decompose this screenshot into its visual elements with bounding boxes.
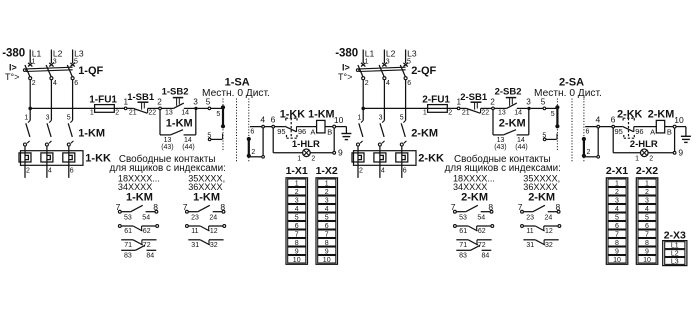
svg-text:6: 6 [615, 223, 619, 230]
node 10 (1) [333, 115, 344, 128]
svg-text:3: 3 [53, 58, 57, 65]
svg-text:6: 6 [403, 167, 407, 174]
svg-text:6: 6 [611, 114, 616, 124]
svg-text:10: 10 [334, 115, 344, 125]
svg-text:10: 10 [293, 257, 301, 264]
svg-text:2: 2 [325, 189, 329, 196]
svg-text:8: 8 [645, 240, 649, 247]
index 35XXXX (2) [523, 173, 560, 183]
SA lower contact row (2) [542, 132, 557, 140]
svg-text:1-KM: 1-KM [308, 109, 334, 121]
free contacts note line2 (1) [110, 163, 226, 174]
phase wire L3 (1) [73, 48, 84, 63]
svg-text:2-KK: 2-KK [617, 109, 642, 121]
svg-text:2: 2 [311, 156, 315, 163]
free contact group 2 1-KM [183, 191, 226, 249]
wire node10 to ground (2) [676, 126, 686, 128]
SA terminal 5 (1) [208, 107, 222, 110]
terminal block 1-X2 [316, 165, 338, 264]
contactor coil 1-KM [308, 109, 334, 137]
svg-text:95: 95 [615, 127, 623, 136]
svg-text:22: 22 [148, 110, 156, 117]
svg-text:L3: L3 [407, 48, 417, 58]
svg-text:L2: L2 [53, 48, 63, 58]
svg-text:2-X3: 2-X3 [664, 229, 686, 241]
wire control bus (1) [30, 107, 124, 109]
svg-text:1: 1 [635, 155, 639, 162]
index 34XXXX (1) [118, 182, 152, 192]
SA node 4 (1) [262, 125, 265, 128]
node 9 (1) [333, 147, 343, 157]
svg-text:(44): (44) [182, 144, 194, 151]
svg-text:-380: -380 [2, 48, 25, 60]
svg-text:4: 4 [645, 206, 649, 213]
SA movable bridge 2 (2) [582, 137, 591, 158]
phase wire L2 (1) [51, 48, 62, 63]
svg-text:2-FU1: 2-FU1 [422, 95, 450, 106]
svg-text:4: 4 [381, 167, 385, 174]
svg-text:6: 6 [250, 129, 254, 136]
SA terminal 5 (2) [543, 107, 556, 110]
svg-text:2: 2 [32, 80, 36, 87]
SA position line Mestn (2) [556, 99, 558, 151]
svg-text:2: 2 [157, 98, 162, 107]
thermal overload relay 1-KK heaters [19, 151, 111, 178]
svg-text:61: 61 [459, 228, 467, 235]
svg-text:для ящиков с индексами:: для ящиков с индексами: [445, 163, 561, 174]
svg-text:2-SA: 2-SA [559, 77, 584, 89]
svg-text:62: 62 [143, 228, 151, 235]
svg-text:3: 3 [645, 197, 649, 204]
svg-text:10: 10 [323, 257, 331, 264]
svg-text:71: 71 [124, 242, 132, 249]
svg-text:5: 5 [400, 114, 404, 121]
svg-text:84: 84 [482, 252, 490, 259]
svg-text:3: 3 [386, 58, 390, 65]
svg-text:13: 13 [165, 110, 173, 117]
svg-text:L3: L3 [671, 258, 679, 265]
svg-text:13: 13 [498, 110, 506, 117]
svg-text:9: 9 [338, 147, 343, 157]
svg-text:32: 32 [210, 242, 218, 249]
SA position line Mestn (1) [222, 99, 224, 151]
SA output row terminals 4 6 (1) [250, 114, 285, 135]
svg-text:L2: L2 [671, 251, 679, 258]
svg-text:7: 7 [325, 231, 329, 238]
svg-text:1-X2: 1-X2 [316, 165, 338, 177]
svg-text:9: 9 [295, 248, 299, 255]
stop pushbutton 2-SB1 [460, 92, 492, 116]
svg-text:2: 2 [448, 110, 452, 117]
SA position line Dist (1) [248, 99, 250, 163]
free contacts note line2 (2) [445, 163, 561, 174]
svg-text:54: 54 [142, 215, 150, 222]
svg-text:4: 4 [260, 114, 265, 124]
svg-text:Местн. 0 Дист.: Местн. 0 Дист. [202, 88, 270, 99]
svg-text:2-KM: 2-KM [461, 191, 488, 203]
start pushbutton 1-SB2 [161, 87, 194, 117]
svg-text:(44): (44) [515, 144, 527, 151]
svg-text:10: 10 [674, 115, 684, 125]
contactor main contacts 1-KM [24, 114, 106, 150]
svg-text:5: 5 [541, 97, 546, 106]
svg-text:5: 5 [67, 114, 71, 121]
contactor coil 2-KM [648, 109, 674, 137]
svg-text:1-X1: 1-X1 [286, 165, 308, 177]
auxiliary self-hold contact 2-KM [493, 110, 529, 151]
svg-text:5: 5 [615, 214, 619, 221]
svg-text:B: B [667, 127, 672, 136]
svg-text:2: 2 [115, 110, 119, 117]
svg-text:6: 6 [70, 167, 74, 174]
index 36XXXX (2) [523, 182, 557, 192]
svg-text:7: 7 [295, 231, 299, 238]
svg-text:21: 21 [462, 110, 470, 117]
wire node1-SB1 (1) [0, 0, 1, 1]
index 35XXXX (1) [188, 173, 225, 183]
svg-text:2: 2 [649, 156, 653, 163]
phase wire L1 (1) [30, 48, 41, 63]
svg-text:3: 3 [46, 114, 50, 121]
svg-text:4: 4 [596, 114, 601, 124]
svg-text:9: 9 [325, 248, 329, 255]
svg-text:для ящиков с индексами:: для ящиков с индексами: [110, 163, 226, 174]
svg-text:10: 10 [643, 257, 651, 264]
node 1 (2) [457, 97, 462, 109]
svg-text:2-KM: 2-KM [499, 117, 526, 129]
node 3 (1) [193, 98, 198, 111]
svg-text:1: 1 [90, 110, 94, 117]
svg-text:7: 7 [615, 231, 619, 238]
svg-text:21: 21 [129, 110, 137, 117]
svg-text:8: 8 [325, 240, 329, 247]
svg-text:5: 5 [645, 214, 649, 221]
svg-text:4: 4 [53, 80, 57, 87]
svg-text:5: 5 [216, 111, 220, 118]
svg-text:1-SB2: 1-SB2 [162, 87, 189, 98]
svg-text:L1: L1 [365, 48, 375, 58]
svg-text:2-HLR: 2-HLR [630, 139, 658, 150]
svg-text:54: 54 [477, 215, 485, 222]
svg-text:1-SA: 1-SA [225, 77, 250, 89]
terminal block 2-X2 [636, 165, 658, 264]
thermal relay trip contact 2-KK 95-96 [615, 109, 657, 139]
auxiliary self-hold contact 1-KM [160, 110, 196, 151]
thermal overload relay 2-KK heaters [352, 151, 444, 178]
svg-text:6: 6 [586, 129, 590, 136]
svg-text:3: 3 [526, 98, 531, 107]
svg-text:83: 83 [459, 252, 467, 259]
svg-text:1: 1 [325, 180, 329, 187]
svg-text:2-X1: 2-X1 [606, 165, 628, 177]
node 1 (1) [124, 97, 129, 109]
svg-text:2: 2 [587, 149, 591, 156]
wire control bus (2) [363, 107, 457, 109]
svg-text:22: 22 [481, 110, 489, 117]
svg-text:2: 2 [359, 167, 363, 174]
wire fuse to node 1 (1) [0, 0, 1, 1]
index 18XXXX (2) [453, 173, 495, 183]
svg-text:1-KM: 1-KM [126, 191, 153, 203]
wire node3 to SA terminal 5 (1) [198, 97, 211, 108]
svg-text:4: 4 [386, 80, 390, 87]
wire lamp to node 9 (1) [310, 152, 333, 154]
wire node6 down to lamp (2) [613, 128, 640, 153]
svg-text:2: 2 [490, 98, 495, 107]
svg-text:1-KM: 1-KM [78, 128, 105, 140]
SA movable bridge 2 (1) [247, 137, 256, 158]
svg-text:71: 71 [459, 242, 467, 249]
svg-text:12: 12 [210, 228, 218, 235]
free contact group 1 1-KM [116, 191, 159, 259]
SA node 6 (1) [272, 125, 275, 128]
svg-text:2: 2 [295, 189, 299, 196]
SA position line 0 (1) [236, 99, 238, 163]
node 10 (2) [673, 115, 684, 128]
svg-text:53: 53 [124, 215, 132, 222]
svg-text:1: 1 [645, 180, 649, 187]
svg-text:9: 9 [645, 248, 649, 255]
svg-text:1-QF: 1-QF [78, 65, 103, 77]
svg-text:3: 3 [615, 197, 619, 204]
svg-text:2-KM: 2-KM [528, 191, 555, 203]
svg-text:6: 6 [645, 223, 649, 230]
wire node3 to SA terminal 5 (2) [531, 97, 546, 108]
svg-text:1-KK: 1-KK [280, 109, 305, 121]
svg-text:9: 9 [615, 248, 619, 255]
svg-text:96: 96 [635, 127, 643, 136]
phase wire L3 (2) [406, 48, 417, 63]
svg-text:31: 31 [526, 242, 534, 249]
svg-text:5: 5 [325, 214, 329, 221]
svg-text:5: 5 [551, 111, 555, 118]
svg-text:5: 5 [295, 214, 299, 221]
svg-text:6: 6 [271, 114, 276, 124]
free contacts note line1 (2) [454, 154, 551, 165]
svg-text:95: 95 [277, 127, 285, 136]
index 36XXXX (1) [188, 182, 222, 192]
selector switch label 1-SA [225, 77, 250, 89]
svg-text:32: 32 [545, 242, 553, 249]
svg-text:4: 4 [48, 167, 52, 174]
stop pushbutton 1-SB1 [127, 92, 159, 116]
svg-text:2: 2 [615, 189, 619, 196]
svg-text:2-QF: 2-QF [411, 65, 436, 77]
free contact group 2 2-KM [518, 191, 561, 249]
contactor main contacts 2-KM [357, 114, 439, 150]
svg-text:6: 6 [407, 80, 411, 87]
junction on L1 (2) [361, 107, 365, 111]
svg-text:-380: -380 [335, 48, 358, 60]
terminal block 2-X3 [663, 229, 687, 265]
SA node 4 (2) [597, 125, 600, 128]
svg-text:5: 5 [206, 97, 211, 106]
svg-text:1: 1 [32, 58, 36, 65]
wire node10 to ground (1) [336, 126, 347, 128]
svg-text:L1: L1 [32, 48, 42, 58]
wire node6 down to lamp (1) [273, 128, 302, 153]
svg-text:31: 31 [191, 242, 199, 249]
SA output row terminals 4 6 (2) [585, 114, 622, 135]
svg-text:8: 8 [615, 240, 619, 247]
ground (1) [341, 127, 351, 140]
selector switch label 2-SA [559, 77, 584, 89]
thermal relay trip contact 1-KK 95-96 [277, 109, 316, 139]
fuse 1-FU1 [89, 95, 119, 117]
svg-text:62: 62 [478, 228, 486, 235]
phase wire L2 (2) [384, 48, 395, 63]
svg-text:7: 7 [645, 231, 649, 238]
svg-text:2-KK: 2-KK [418, 152, 444, 164]
SA movable bridge 5-6 (2) [551, 105, 560, 128]
thermal release label (2) [338, 72, 352, 82]
svg-text:2-KM: 2-KM [648, 109, 674, 121]
net -380V supply label (1) [2, 48, 25, 60]
svg-text:4: 4 [295, 206, 299, 213]
svg-text:1: 1 [297, 155, 301, 162]
svg-text:A: A [650, 127, 655, 136]
SA position line 0 (2) [571, 99, 573, 163]
selector positions label (2) [534, 88, 602, 99]
svg-text:10: 10 [613, 257, 621, 264]
SA bottom return wire (1) [249, 128, 265, 158]
svg-text:4: 4 [615, 206, 619, 213]
overcurrent release label (2) [342, 63, 350, 73]
svg-text:11: 11 [526, 228, 533, 235]
svg-text:14: 14 [181, 110, 189, 117]
svg-text:3: 3 [193, 98, 198, 107]
svg-text:L3: L3 [74, 48, 84, 58]
svg-text:8: 8 [295, 240, 299, 247]
net -380V supply label (2) [335, 48, 358, 60]
svg-text:1: 1 [365, 58, 369, 65]
svg-text:A: A [310, 127, 315, 136]
svg-text:11: 11 [191, 228, 198, 235]
signal lamp 1-HLR [292, 139, 320, 163]
svg-text:61: 61 [124, 228, 132, 235]
svg-text:23: 23 [526, 215, 534, 222]
circuit breaker 1-QF [23, 58, 103, 120]
free contacts note line1 (1) [119, 154, 216, 165]
wire node1-SB1 (2) [0, 0, 1, 1]
svg-text:L1: L1 [671, 243, 679, 250]
svg-text:(43): (43) [494, 144, 506, 151]
terminal block 1-X1 [286, 165, 308, 264]
svg-text:96: 96 [298, 127, 306, 136]
svg-text:1: 1 [24, 114, 28, 121]
svg-text:1-KM: 1-KM [193, 191, 220, 203]
signal lamp 2-HLR [630, 139, 658, 163]
SA node 6 (2) [612, 125, 615, 128]
svg-text:6: 6 [325, 223, 329, 230]
node 3 (2) [526, 98, 531, 111]
svg-text:(43): (43) [161, 144, 173, 151]
svg-text:53: 53 [459, 215, 467, 222]
svg-text:1-KK: 1-KK [85, 152, 111, 164]
wire node10 down to node 9 (1) [333, 128, 335, 151]
svg-text:3: 3 [325, 197, 329, 204]
svg-text:6: 6 [295, 223, 299, 230]
svg-text:4: 4 [325, 206, 329, 213]
wire fuse to node 1 (2) [0, 0, 1, 1]
svg-text:1-HLR: 1-HLR [292, 139, 320, 150]
terminal block 2-X1 [606, 165, 628, 264]
SA position line Dist (2) [583, 99, 585, 163]
wire node10 down to node 9 (2) [674, 128, 676, 151]
svg-text:2: 2 [645, 189, 649, 196]
ground (2) [681, 127, 691, 143]
svg-text:9: 9 [678, 147, 683, 157]
svg-text:1: 1 [295, 180, 299, 187]
svg-text:B: B [327, 127, 332, 136]
SA bottom return wire (2) [584, 128, 600, 158]
svg-text:1-FU1: 1-FU1 [89, 95, 117, 106]
svg-text:1: 1 [615, 180, 619, 187]
free contact group 1 2-KM [451, 191, 494, 259]
svg-text:2: 2 [251, 149, 255, 156]
svg-text:24: 24 [209, 215, 217, 222]
svg-text:T°>: T°> [338, 72, 352, 82]
thermal release label (1) [5, 72, 19, 82]
svg-text:14: 14 [514, 110, 522, 117]
svg-text:2: 2 [365, 80, 369, 87]
node 9 (2) [673, 147, 683, 157]
svg-text:2-KM: 2-KM [411, 128, 438, 140]
svg-text:3: 3 [295, 197, 299, 204]
svg-text:T°>: T°> [5, 72, 19, 82]
svg-text:6: 6 [74, 80, 78, 87]
overcurrent release label (1) [9, 63, 17, 73]
fuse 2-FU1 [422, 95, 452, 117]
svg-text:24: 24 [545, 215, 553, 222]
node 2 (2) [490, 98, 495, 110]
svg-text:L2: L2 [386, 48, 396, 58]
svg-text:2: 2 [26, 167, 30, 174]
svg-text:84: 84 [146, 252, 154, 259]
svg-text:2-X2: 2-X2 [636, 165, 658, 177]
svg-text:1: 1 [423, 110, 427, 117]
selector positions label (1) [202, 88, 270, 99]
node 2 (1) [157, 98, 162, 110]
SA lower contact row (1) [207, 132, 222, 140]
svg-text:1: 1 [357, 114, 361, 121]
svg-text:83: 83 [124, 252, 132, 259]
svg-text:1-KM: 1-KM [166, 117, 193, 129]
phase wire L1 (2) [363, 48, 374, 63]
svg-text:2-SB2: 2-SB2 [495, 87, 522, 98]
index 34XXXX (2) [453, 182, 487, 192]
index 18XXXX (1) [118, 173, 160, 183]
circuit breaker 2-QF [356, 58, 436, 120]
svg-text:23: 23 [191, 215, 199, 222]
start pushbutton 2-SB2 [494, 87, 527, 117]
SA movable bridge 5-6 (1) [216, 105, 225, 128]
junction on L1 (1) [28, 107, 32, 111]
svg-text:3: 3 [379, 114, 383, 121]
svg-text:12: 12 [545, 228, 553, 235]
wire lamp to node 9 (2) [648, 152, 673, 154]
